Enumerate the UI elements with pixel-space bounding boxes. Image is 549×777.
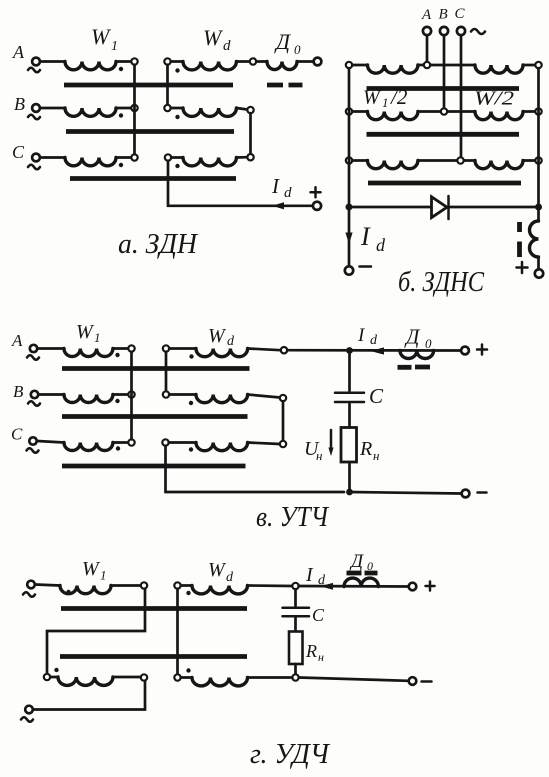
winding Wd phase B bbox=[196, 395, 248, 403]
wire cap to resistor bbox=[348, 404, 351, 428]
node Wd row A left bbox=[163, 345, 169, 351]
svg-text:C: C bbox=[11, 425, 23, 444]
svg-text:W/2: W/2 bbox=[474, 88, 514, 110]
node W1 bus row B bbox=[128, 391, 134, 397]
label D0 bbox=[349, 551, 373, 573]
junction left bbox=[346, 204, 353, 211]
node W1-1 right bbox=[141, 582, 147, 588]
label D0 bbox=[404, 325, 432, 352]
wire resistor to bottom node bbox=[294, 664, 297, 674]
core row 2 bbox=[367, 132, 520, 137]
node right row 3 bbox=[535, 157, 541, 163]
label D0 bbox=[274, 29, 301, 57]
wire row 2 right bbox=[523, 110, 539, 113]
svg-text:C: C bbox=[312, 605, 325, 625]
label Wd bbox=[208, 559, 234, 585]
node phase A tap bbox=[424, 62, 430, 68]
winding W/2 row 2 bbox=[475, 112, 523, 120]
resistor Rn bbox=[289, 632, 303, 665]
svg-text:W: W bbox=[208, 325, 227, 347]
wire row 1 right bbox=[523, 64, 539, 67]
svg-text:0: 0 bbox=[294, 42, 301, 57]
wire Wd-B left bbox=[171, 107, 183, 110]
wire phase B drop bbox=[443, 36, 446, 108]
wire bottom to minus terminal bbox=[350, 492, 462, 494]
core dashes of D0 bbox=[347, 571, 378, 576]
label W1 bbox=[91, 24, 118, 54]
terminal plus bbox=[409, 583, 417, 591]
wire W1-A to bus bbox=[113, 347, 128, 350]
svg-text:а. ЗДН: а. ЗДН bbox=[118, 229, 199, 260]
plus sign bbox=[311, 187, 321, 197]
polarity dot W1-A bbox=[115, 353, 119, 357]
node Wd row C left bbox=[162, 439, 168, 445]
wire W1-1 to node bbox=[111, 584, 141, 587]
winding W/2 row 1 bbox=[475, 65, 523, 73]
current arrow Id bbox=[371, 347, 385, 354]
svg-text:I: I bbox=[271, 174, 280, 198]
winding W1 phase B bbox=[64, 395, 113, 403]
node W1 bus row C bbox=[128, 439, 134, 445]
wire Wd B-C right link bbox=[249, 113, 252, 154]
svg-text:I: I bbox=[305, 564, 314, 586]
node W1-2 right bbox=[141, 674, 147, 680]
terminal A bbox=[12, 42, 40, 72]
winding W/2 row 3 bbox=[475, 161, 523, 169]
wire choke to plus terminal bbox=[537, 257, 540, 269]
winding Wd half 1 bbox=[192, 586, 248, 594]
diode VD bbox=[432, 196, 449, 219]
choke D0 bbox=[400, 351, 434, 359]
wire A to W1 bbox=[40, 60, 65, 63]
winding Wd phase C bbox=[183, 158, 236, 166]
polarity dot Wd-B bbox=[175, 115, 179, 119]
wire C to W1 bbox=[40, 156, 65, 159]
minus sign bbox=[360, 265, 372, 268]
svg-text:d: d bbox=[226, 570, 234, 585]
wire resistor to bottom bbox=[348, 462, 351, 492]
winding W1 half 2 bbox=[58, 677, 113, 685]
svg-text:W: W bbox=[91, 24, 111, 49]
wire phase A drop bbox=[426, 36, 429, 62]
terminal A bbox=[421, 7, 432, 35]
wire W1-A to bus node bbox=[116, 60, 131, 63]
winding Wd phase A bbox=[183, 62, 236, 70]
terminal output top (plus) bbox=[314, 58, 322, 66]
core row 2 bbox=[60, 654, 247, 659]
terminal B bbox=[13, 382, 40, 406]
wire row 3 mid bbox=[418, 159, 475, 162]
wire Wd-A left bbox=[171, 60, 183, 63]
node output row A bbox=[281, 347, 287, 353]
resistor Rn bbox=[341, 428, 357, 463]
wire to smoothing choke bbox=[537, 207, 540, 221]
terminal minus bbox=[409, 677, 417, 685]
choke D0 bbox=[344, 578, 378, 586]
node W1-2 left bbox=[44, 674, 50, 680]
svg-text:н: н bbox=[316, 448, 322, 463]
core dashes of choke bbox=[517, 222, 522, 257]
wire W1-B to bus node bbox=[116, 107, 131, 110]
label Wd bbox=[203, 25, 231, 54]
svg-text:C: C bbox=[12, 142, 25, 162]
node W1 bus row B bbox=[131, 105, 137, 111]
winding W1/2 row 2 bbox=[368, 112, 418, 120]
node Wd row B left bbox=[163, 391, 169, 397]
wire Wd-C right bbox=[248, 443, 280, 445]
core row 1 bbox=[367, 86, 520, 91]
svg-text:1: 1 bbox=[111, 39, 118, 54]
wire cap branch bbox=[294, 589, 297, 606]
terminal C bbox=[12, 142, 40, 169]
winding Wd half 2 bbox=[192, 678, 248, 686]
core row 1 bbox=[61, 606, 247, 611]
wire right bus bbox=[537, 68, 540, 207]
junction right bbox=[535, 204, 542, 211]
node Wd row C left bbox=[165, 154, 171, 160]
terminal A bbox=[11, 331, 39, 360]
winding W1/2 row 3 bbox=[368, 161, 418, 169]
svg-text:B: B bbox=[14, 94, 25, 114]
svg-text:W: W bbox=[76, 321, 95, 343]
wire to input 2 bbox=[34, 681, 146, 710]
svg-text:W: W bbox=[208, 559, 227, 581]
winding W1 phase C bbox=[64, 443, 113, 451]
wire Wd bus rows A-B bbox=[165, 352, 168, 392]
terminal B bbox=[14, 94, 40, 119]
wire output bottom bbox=[299, 678, 409, 681]
node Wd-1 left bbox=[174, 582, 180, 588]
wire B to W1 bbox=[40, 107, 65, 110]
node Wd row C right bbox=[280, 441, 286, 447]
wire Wd-B right bbox=[236, 108, 247, 110]
terminal C bbox=[11, 425, 39, 453]
wire output top run bbox=[287, 349, 461, 352]
svg-text:Д: Д bbox=[404, 325, 421, 349]
winding W1 half 1 bbox=[60, 586, 111, 594]
node choke input bbox=[250, 58, 256, 64]
wire Wd-C right bbox=[236, 156, 247, 159]
winding Wd phase B bbox=[183, 108, 236, 116]
wire W1-C to bus node bbox=[116, 156, 131, 159]
label Id bbox=[271, 174, 292, 201]
wire Wd-B right bbox=[248, 395, 280, 398]
node left row 3 bbox=[346, 157, 352, 163]
wire row 3 left bbox=[352, 159, 367, 162]
svg-text:A: A bbox=[12, 42, 25, 62]
label Rn bbox=[359, 438, 379, 463]
node Wd row B right bbox=[280, 395, 286, 401]
polarity dot W1-B bbox=[115, 399, 119, 403]
wire C to W1 bbox=[37, 441, 64, 443]
node right row 2 bbox=[535, 108, 541, 114]
plus sign bbox=[517, 262, 528, 273]
polarity dot W1-A bbox=[119, 67, 123, 71]
ac tilde bbox=[471, 29, 485, 34]
label Id bbox=[305, 564, 326, 588]
label W1 bbox=[76, 321, 101, 345]
svg-text:н: н bbox=[373, 448, 379, 463]
node W1 bus row A bbox=[128, 345, 134, 351]
wire rectifier row bbox=[349, 206, 539, 209]
wire node to choke D0 bbox=[256, 60, 267, 63]
svg-text:1: 1 bbox=[382, 95, 389, 110]
svg-text:A: A bbox=[11, 331, 23, 350]
node Wd row B right bbox=[247, 107, 253, 113]
wire Wd-A to choke node bbox=[236, 60, 249, 63]
label W1 bbox=[82, 558, 107, 583]
node output top bbox=[292, 583, 298, 589]
winding Wd phase A bbox=[196, 349, 248, 357]
polarity dot W1-C bbox=[116, 446, 120, 450]
node Wd-2 left bbox=[174, 674, 180, 680]
polarity dot Wd-C bbox=[175, 164, 179, 168]
polarity dot Wd-A bbox=[175, 68, 179, 72]
svg-text:B: B bbox=[13, 382, 24, 401]
wire Wd-C left bbox=[169, 441, 196, 444]
wire W1-B to bus bbox=[113, 393, 128, 396]
wire row 1 mid bbox=[418, 64, 475, 67]
W1 neutral bus wire bbox=[130, 352, 133, 440]
wire Wd-A to output node bbox=[248, 349, 281, 351]
winding W1 phase A bbox=[64, 349, 113, 357]
wire Wd-2 left bbox=[181, 676, 192, 679]
svg-text:d: d bbox=[227, 334, 235, 349]
wire row 3 right bbox=[523, 159, 539, 162]
wire W1-2 to node bbox=[113, 676, 141, 679]
terminal input 2 bbox=[21, 706, 33, 722]
wire cap to resistor bbox=[294, 618, 297, 632]
svg-text:Д: Д bbox=[349, 551, 364, 572]
current arrow Id bbox=[320, 583, 333, 590]
core row A bbox=[64, 83, 233, 88]
smoothing choke bbox=[530, 221, 539, 257]
core row B bbox=[66, 129, 234, 134]
svg-text:B: B bbox=[439, 7, 448, 23]
terminal input 1 bbox=[23, 581, 35, 597]
wire input 1 bbox=[36, 585, 61, 586]
polarity dot Wd-B bbox=[189, 401, 193, 405]
core row B bbox=[62, 414, 248, 419]
W1 neutral bus wire bbox=[133, 65, 136, 155]
wire W1-2 left bbox=[50, 676, 58, 679]
wire row 2 left bbox=[352, 110, 367, 113]
svg-text:Д: Д bbox=[274, 29, 291, 54]
wire Wd-1 to output node bbox=[248, 584, 293, 587]
plus sign bbox=[426, 582, 435, 591]
label W1/2 bbox=[363, 85, 408, 110]
junction bottom bbox=[346, 489, 353, 496]
core dashes of D0 bbox=[267, 83, 303, 88]
label Id bbox=[357, 325, 378, 348]
label W/2 bbox=[474, 88, 514, 110]
winding W1 phase B bbox=[65, 108, 116, 116]
terminal C bbox=[455, 6, 466, 35]
svg-text:R: R bbox=[305, 641, 317, 661]
wire output top bbox=[299, 585, 408, 588]
polarity dot Wd-C bbox=[189, 447, 193, 451]
terminal minus bbox=[345, 266, 353, 274]
wire Wd bus bbox=[176, 589, 179, 675]
node Wd row A left bbox=[164, 58, 170, 64]
svg-text:г. УДЧ: г. УДЧ bbox=[250, 739, 331, 770]
wire row 2 mid bbox=[418, 110, 475, 113]
wire Wd-B left bbox=[169, 393, 196, 396]
svg-text:0: 0 bbox=[425, 336, 432, 351]
svg-text:/2: /2 bbox=[390, 85, 408, 109]
wire series jog bbox=[47, 589, 145, 674]
svg-text:б. ЗДНС: б. ЗДНС bbox=[398, 267, 484, 298]
capacitor C bbox=[335, 393, 364, 402]
node W1 bus row A bbox=[131, 58, 137, 64]
wire W1-C to bus bbox=[113, 441, 128, 444]
svg-text:d: d bbox=[318, 573, 326, 588]
core row C bbox=[62, 464, 246, 469]
terminal minus bbox=[462, 490, 470, 498]
polarity dot W1-C bbox=[119, 163, 123, 167]
node right row 1 bbox=[535, 62, 541, 68]
terminal plus bbox=[461, 347, 469, 355]
core dashes of D0 bbox=[398, 365, 431, 370]
plus sign bbox=[477, 345, 487, 355]
svg-text:d: d bbox=[370, 333, 378, 348]
svg-text:R: R bbox=[359, 438, 372, 460]
wire bottom return run bbox=[166, 446, 345, 492]
winding W1/2 row 1 bbox=[368, 65, 418, 73]
wire Wd B-C right link bbox=[282, 401, 285, 441]
svg-text:C: C bbox=[455, 6, 466, 22]
svg-text:d: d bbox=[376, 235, 386, 255]
arrow Un down bbox=[328, 430, 333, 456]
svg-text:1: 1 bbox=[94, 330, 101, 345]
wire cap branch upper bbox=[348, 351, 351, 391]
current arrow Id bbox=[272, 202, 284, 209]
label Un bbox=[304, 438, 322, 463]
wire Wd-2 to bottom node bbox=[248, 676, 293, 679]
core row C bbox=[70, 176, 236, 181]
node Wd row B left bbox=[164, 105, 170, 111]
svg-text:в. УТЧ: в. УТЧ bbox=[256, 502, 330, 533]
node W1 bus row C bbox=[131, 154, 137, 160]
node left row 1 bbox=[346, 62, 352, 68]
polarity dot W1-2 bbox=[54, 668, 58, 672]
polarity dot Wd-A bbox=[189, 354, 193, 358]
svg-text:W: W bbox=[82, 558, 101, 580]
node phase B tap bbox=[441, 108, 447, 114]
minus sign bbox=[422, 680, 432, 683]
core row 3 bbox=[368, 181, 521, 186]
winding Wd phase C bbox=[196, 443, 248, 451]
core row A bbox=[62, 366, 250, 371]
node Wd row C right bbox=[247, 154, 253, 160]
wire Wd-A left bbox=[169, 347, 196, 350]
label Wd bbox=[208, 325, 235, 349]
svg-text:1: 1 bbox=[100, 568, 107, 583]
winding W1 phase A bbox=[65, 62, 116, 70]
wire row 1 left bbox=[352, 64, 367, 67]
svg-text:d: d bbox=[223, 38, 231, 54]
polarity dot W1-1 bbox=[66, 590, 70, 594]
node output bottom bbox=[292, 674, 298, 680]
wire left bus bbox=[348, 68, 351, 265]
polarity dot W1-B bbox=[119, 113, 123, 117]
wire Wd-C left bbox=[171, 156, 183, 159]
terminal B bbox=[439, 7, 449, 36]
svg-text:C: C bbox=[369, 384, 384, 408]
minus sign bbox=[478, 491, 487, 494]
wire A to W1 bbox=[38, 347, 64, 350]
node phase C tap bbox=[457, 157, 463, 163]
polarity dot Wd-1 bbox=[186, 591, 190, 595]
svg-text:A: A bbox=[421, 7, 432, 23]
choke D0 bbox=[267, 62, 297, 70]
svg-text:I: I bbox=[360, 222, 371, 251]
current arrow Id down bbox=[345, 233, 352, 245]
wire Wd-1 left bbox=[181, 584, 192, 587]
node left row 2 bbox=[346, 108, 352, 114]
wire choke to plus terminal bbox=[297, 60, 313, 63]
label Id bbox=[360, 222, 386, 255]
svg-text:W: W bbox=[203, 25, 223, 50]
svg-text:н: н bbox=[318, 650, 324, 664]
terminal plus bbox=[535, 269, 543, 277]
wire phase C drop bbox=[460, 36, 463, 157]
svg-text:W: W bbox=[363, 87, 382, 109]
wire Wd bus row A-B bbox=[166, 65, 169, 105]
svg-text:d: d bbox=[284, 185, 292, 201]
terminal output bottom (plus) bbox=[313, 202, 321, 210]
polarity dot Wd-2 bbox=[186, 668, 190, 672]
wire B to W1 bbox=[39, 393, 64, 396]
capacitor C bbox=[283, 608, 310, 616]
wire output bottom run bbox=[168, 161, 313, 206]
junction cap top bbox=[346, 347, 353, 354]
label Rn bbox=[305, 641, 324, 664]
winding W1 phase C bbox=[65, 158, 116, 166]
